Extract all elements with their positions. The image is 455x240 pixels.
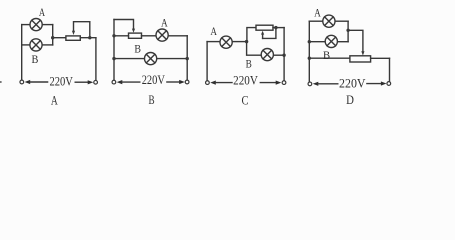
arrow right (circuit A source) <box>75 80 93 84</box>
terminal (circuit B left) <box>112 80 116 84</box>
terminal (circuit A right) <box>94 80 98 84</box>
wire: right vertical (circuit B) <box>186 36 188 80</box>
terminal (circuit D left) <box>308 82 312 86</box>
terminal (circuit C left) <box>206 81 210 85</box>
lamp L-B (circuit D, lamp B) <box>325 35 337 47</box>
lamp L-A (circuit D, lamp A) <box>323 15 335 27</box>
wire: body to lamp A (circuit B) <box>142 35 156 37</box>
svg-text:A: A <box>161 16 168 30</box>
slider arrow of R3 (circuit C, points up) <box>261 31 264 39</box>
svg-text:B: B <box>134 42 141 56</box>
terminal (circuit C right) <box>282 81 286 85</box>
wire: middle wire left segment (circuit B) <box>114 58 144 60</box>
wire: middle wire to rheostat (circuit A) <box>53 37 66 39</box>
wire: right vertical (circuit A) <box>95 38 97 80</box>
slider arrow of R4 (circuit D) <box>361 51 364 55</box>
wire: slider loop (circuit C) <box>263 28 276 39</box>
lamp L-A (circuit B, lamp A) <box>156 29 168 41</box>
wire: right vertical (circuit D) <box>389 58 391 81</box>
wire: lamp pair right vertical (circuit A) <box>52 25 54 45</box>
wire: lamp B right stub (circuit A) <box>42 44 52 46</box>
svg-text:B: B <box>148 92 154 107</box>
junction dot (circuit B, middle-right) <box>186 57 189 60</box>
wire: left vertical (circuit A) <box>21 25 23 80</box>
wire: lamp B left stub (circuit D) <box>309 41 325 43</box>
junction dot (circuit C, rejoin node) <box>282 54 285 57</box>
arrow left (circuit C source) <box>210 81 232 85</box>
wire: left tee to body (circuit D) <box>309 57 350 59</box>
wire: up branch riser (circuit C) <box>247 28 256 42</box>
wire: rheostat to right corner (circuit A) <box>80 37 96 39</box>
junction dot (circuit D, left rheostat tee) <box>308 57 311 60</box>
wire: down branch riser (circuit C) <box>247 42 261 56</box>
terminal (circuit A left) <box>20 80 24 84</box>
svg-text:A: A <box>39 5 45 19</box>
arrow right (circuit C source) <box>260 81 281 85</box>
junction dot (circuit D, lamp node) <box>346 29 349 32</box>
terminal (circuit D right) <box>387 82 391 86</box>
terminal (circuit B right) <box>185 80 189 84</box>
wire: lamp A left stub (circuit A) <box>22 24 30 26</box>
wire: lamp B left stub (circuit A) <box>22 44 30 46</box>
junction dot (circuit D, left lamp B tee) <box>308 40 311 43</box>
arrow left (circuit D source) <box>313 82 338 86</box>
arrow left (circuit B source) <box>117 80 140 84</box>
svg-text:220V: 220V <box>49 74 73 89</box>
lamp L-A (circuit C, lamp A) <box>220 36 232 48</box>
wire: middle wire right segment (circuit B) <box>157 58 187 60</box>
resistor R3 body (rheostat, circuit C) <box>256 25 273 30</box>
arrow left (circuit A source) <box>25 80 48 84</box>
svg-text:220V: 220V <box>339 76 366 91</box>
wire: lamp B right stub (circuit D) <box>338 41 348 43</box>
wire: top wire left of body (circuit B) <box>114 35 129 37</box>
wire: top wire to lamp A (circuit D) <box>309 20 322 22</box>
svg-text:220V: 220V <box>142 72 166 87</box>
wire: node to slider stem (circuit D) <box>348 30 363 51</box>
junction dot (circuit B, top-left tee) <box>112 34 115 37</box>
slider arrow of R1 (circuit A) <box>72 31 75 35</box>
svg-text:C: C <box>242 93 249 108</box>
resistor R4 body (rheostat, circuit D) <box>350 56 371 62</box>
svg-text:A: A <box>51 92 58 107</box>
lamp L-B (circuit A, lamp B) <box>30 39 42 51</box>
wire: left vertical (circuit B) <box>113 20 115 80</box>
svg-text:B: B <box>323 48 330 62</box>
svg-text:D: D <box>346 92 354 107</box>
junction dot (circuit B, middle-left) <box>112 57 115 60</box>
wire: right vertical (circuit C) <box>283 28 285 81</box>
wire: left vertical (circuit D) <box>308 21 310 81</box>
wire: lamp pair right vertical (circuit D) <box>347 21 349 42</box>
wire: body to right corner (circuit D) <box>371 57 390 59</box>
wire: body to right corner (circuit C) <box>273 27 284 29</box>
lamp L-A (circuit A, lamp A) <box>30 19 42 31</box>
wire: slider loop top (circuit B) <box>114 20 134 29</box>
arrow right (circuit B source) <box>167 80 185 84</box>
svg-text:B: B <box>32 52 39 66</box>
wire: top wire to lamp A (circuit C) <box>207 41 220 43</box>
junction dot (circuit A, tee) <box>51 36 54 39</box>
wire: lamp A to right corner (circuit B) <box>169 35 188 37</box>
wire: lamp B to rejoin node (circuit C) <box>274 54 284 56</box>
svg-text:A: A <box>210 24 217 38</box>
speck artifact <box>0 81 2 83</box>
resistor R1 body (rheostat, circuit A) <box>66 36 80 40</box>
wire: lamp A right stub (circuit A) <box>42 24 52 26</box>
wire: slider loop (circuit A) <box>74 22 90 38</box>
lamp L-B (circuit B, lamp B) <box>145 53 157 65</box>
junction dot (circuit C, slider join) <box>274 26 277 29</box>
junction dot (circuit C, split node) <box>245 40 248 43</box>
svg-text:220V: 220V <box>233 72 258 87</box>
svg-text:B: B <box>246 57 252 71</box>
wire: left vertical (circuit C) <box>206 42 208 81</box>
junction dot (circuit A, slider join) <box>88 36 91 39</box>
arrow right (circuit D source) <box>367 81 387 85</box>
wire: lamp A to split node (circuit C) <box>232 41 246 43</box>
slider arrow of R2 (circuit B) <box>132 29 135 33</box>
lamp L-B (circuit C, lamp B) <box>261 49 273 61</box>
wire: lamp A right stub (circuit D) <box>335 20 348 22</box>
resistor R2 body (rheostat, circuit B) <box>129 33 142 38</box>
svg-text:A: A <box>314 5 321 19</box>
